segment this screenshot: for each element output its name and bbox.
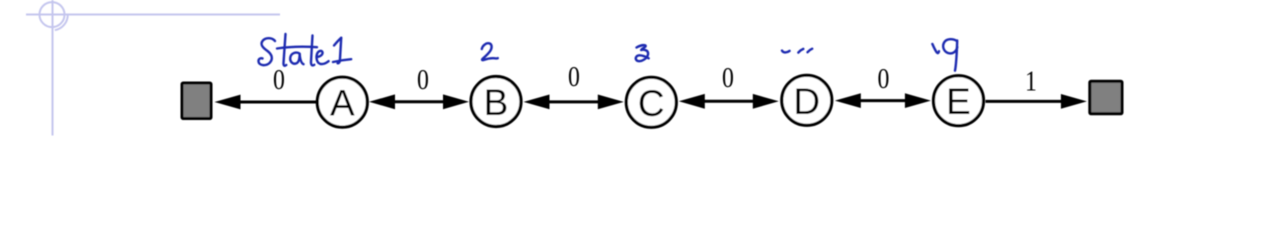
- svg-text:0: 0: [877, 62, 889, 95]
- svg-text:C: C: [638, 83, 665, 124]
- svg-text:0: 0: [722, 61, 734, 94]
- svg-text:0: 0: [273, 63, 285, 96]
- svg-text:0: 0: [417, 63, 429, 96]
- svg-text:A: A: [330, 83, 355, 124]
- svg-text:D: D: [793, 81, 820, 122]
- svg-text:E: E: [946, 81, 971, 122]
- svg-text:0: 0: [568, 60, 580, 93]
- svg-text:1: 1: [1025, 64, 1037, 97]
- svg-text:B: B: [484, 82, 509, 123]
